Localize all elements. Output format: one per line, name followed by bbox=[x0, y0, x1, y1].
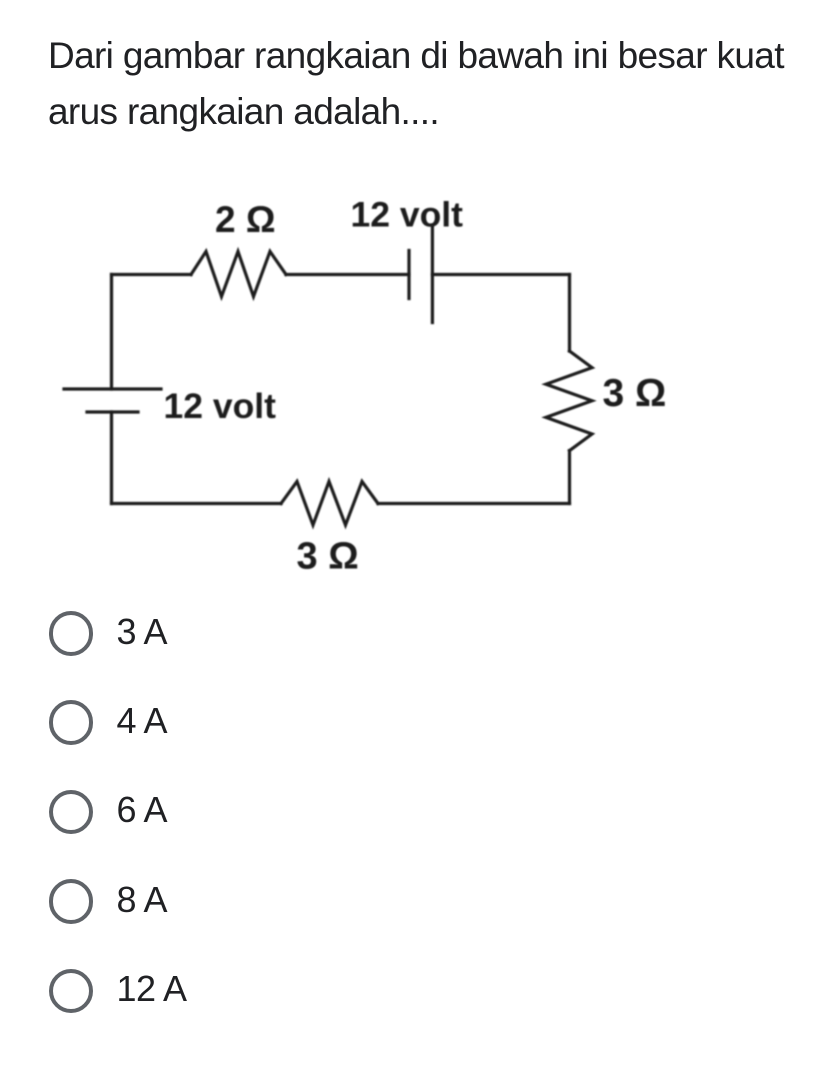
battery V1 long plate bbox=[64, 387, 161, 390]
wire left vertical lower bbox=[110, 412, 113, 504]
option C label bbox=[117, 792, 168, 828]
option B label bbox=[117, 703, 168, 739]
resistor R2 3 ohm (right) bbox=[546, 351, 592, 451]
resistor R1 2 ohm (top) bbox=[191, 252, 286, 297]
question title bbox=[48, 28, 800, 140]
wire top middle bbox=[286, 273, 409, 276]
wire bottom-left horizontal bbox=[112, 502, 282, 505]
option B radio bbox=[49, 700, 94, 745]
wire bottom-right horizontal bbox=[378, 502, 570, 505]
wire right vertical upper bbox=[568, 275, 571, 352]
option D label bbox=[117, 882, 168, 918]
option D radio bbox=[49, 879, 94, 924]
wire right vertical lower bbox=[568, 451, 571, 504]
wire top-right horizontal bbox=[432, 273, 569, 276]
battery V2 long plate bbox=[431, 227, 434, 323]
option E radio bbox=[49, 969, 94, 1014]
svg-text:12 volt: 12 volt bbox=[351, 195, 464, 235]
svg-text:2 Ω: 2 Ω bbox=[215, 199, 276, 240]
resistor R3 3 ohm (bottom) bbox=[281, 482, 378, 526]
wire left vertical upper bbox=[110, 275, 113, 390]
svg-text:3 Ω: 3 Ω bbox=[603, 372, 667, 415]
option A radio bbox=[49, 611, 94, 656]
svg-text:3 Ω: 3 Ω bbox=[297, 536, 359, 578]
svg-text:12 volt: 12 volt bbox=[164, 386, 277, 426]
wire top-left horizontal bbox=[112, 273, 192, 276]
option A label bbox=[117, 614, 168, 650]
option C radio bbox=[49, 790, 94, 835]
battery V2 short plate bbox=[407, 251, 410, 299]
battery V1 short plate bbox=[87, 410, 138, 413]
option E label bbox=[117, 971, 187, 1007]
